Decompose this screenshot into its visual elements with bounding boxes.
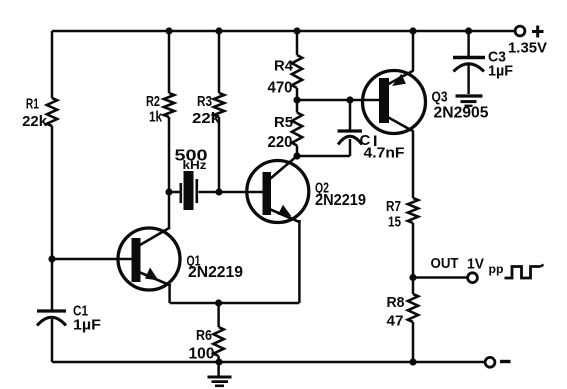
- svg-text:R3: R3: [197, 94, 212, 110]
- svg-text:22k: 22k: [22, 113, 48, 130]
- svg-text:R4: R4: [274, 59, 293, 75]
- svg-text:100: 100: [189, 346, 215, 363]
- svg-text:22k: 22k: [192, 110, 221, 127]
- svg-text:R6: R6: [196, 328, 212, 344]
- svg-text:4.7nF: 4.7nF: [364, 146, 405, 162]
- svg-text:R5: R5: [274, 115, 293, 131]
- svg-text:2N2219: 2N2219: [188, 264, 243, 281]
- svg-text:R7: R7: [386, 199, 401, 215]
- svg-text:R2: R2: [146, 94, 160, 110]
- svg-text:2N2219: 2N2219: [315, 192, 366, 209]
- svg-text:R8: R8: [387, 295, 405, 311]
- svg-text:pp: pp: [489, 264, 504, 276]
- svg-text:220: 220: [268, 134, 293, 151]
- svg-text:1µF: 1µF: [488, 64, 513, 80]
- svg-text:1.35V: 1.35V: [508, 41, 547, 57]
- svg-text:2N2905: 2N2905: [434, 105, 489, 122]
- svg-text:47: 47: [387, 314, 404, 330]
- svg-text:1k: 1k: [149, 110, 163, 126]
- svg-text:15: 15: [388, 215, 401, 231]
- svg-text:1µF: 1µF: [73, 318, 101, 334]
- svg-text:470: 470: [268, 80, 293, 97]
- svg-text:Q3: Q3: [432, 90, 448, 106]
- svg-text:OUT: OUT: [431, 256, 459, 272]
- svg-text:kHz: kHz: [183, 158, 207, 172]
- svg-text:1V: 1V: [467, 256, 484, 273]
- svg-text:R1: R1: [26, 97, 39, 113]
